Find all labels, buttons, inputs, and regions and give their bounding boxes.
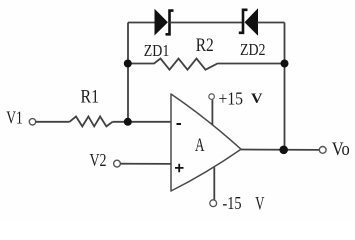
svg-text:-15: -15 — [223, 193, 242, 213]
wire V1 to R1 — [36, 121, 70, 123]
junction dot output node — [279, 146, 288, 155]
resistor R2 — [128, 59, 285, 70]
zener diode ZD2 — [239, 10, 258, 35]
svg-text:R2: R2 — [196, 35, 214, 56]
svg-text:Vo: Vo — [332, 139, 350, 160]
-15V terminal — [210, 200, 217, 207]
+15V supply pin — [211, 99, 213, 125]
junction dot inverting node — [124, 118, 132, 126]
op-amp A triangle — [171, 94, 241, 191]
wire V2 to non-inverting input — [121, 163, 172, 165]
wire op-amp output — [241, 149, 319, 151]
junction dot left R2 — [124, 60, 132, 68]
svg-text:ZD2: ZD2 — [240, 40, 266, 59]
svg-text:A: A — [195, 135, 205, 156]
terminal Vo — [319, 147, 326, 154]
svg-text:ZD1: ZD1 — [144, 41, 170, 60]
svg-text:R1: R1 — [81, 88, 100, 108]
wire top rail right segment — [258, 22, 285, 24]
wire right feedback vertical — [284, 23, 286, 150]
zener diode ZD1 — [155, 10, 174, 34]
op-amp minus sign — [177, 123, 182, 125]
+15V terminal — [209, 94, 215, 100]
svg-text:V2: V2 — [90, 150, 107, 170]
svg-text:V1: V1 — [6, 107, 23, 127]
svg-text:+15: +15 — [219, 89, 244, 109]
svg-text:V: V — [255, 194, 264, 215]
-15V supply pin — [213, 167, 215, 200]
resistor R1 — [70, 117, 113, 127]
wire left feedback vertical — [127, 23, 129, 122]
wire R1 to inverting input — [113, 121, 172, 123]
svg-text:V: V — [251, 91, 263, 107]
junction dot right R2 — [281, 60, 289, 68]
op-amp plus sign — [175, 164, 184, 173]
wire top feedback rail left segment — [128, 22, 155, 24]
wire top rail middle segment — [170, 22, 244, 24]
terminal V2 — [114, 160, 121, 167]
terminal V1 — [29, 119, 35, 125]
